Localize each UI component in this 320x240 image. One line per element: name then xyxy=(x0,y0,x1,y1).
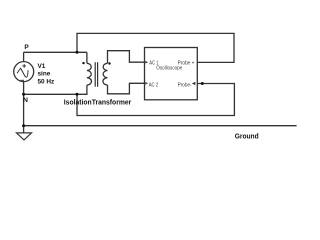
svg-text:IsolationTransformer: IsolationTransformer xyxy=(64,99,132,106)
svg-text:Oscilloscope: Oscilloscope xyxy=(156,66,182,72)
svg-text:AC 2: AC 2 xyxy=(149,82,158,88)
svg-text:Ground: Ground xyxy=(235,133,259,140)
svg-text:Probe-: Probe- xyxy=(178,82,192,88)
svg-text:50 Hz: 50 Hz xyxy=(38,78,55,85)
svg-text:V1: V1 xyxy=(38,63,46,70)
svg-text:N: N xyxy=(23,97,28,104)
svg-text:P: P xyxy=(24,44,29,51)
svg-text:sine: sine xyxy=(38,71,51,78)
